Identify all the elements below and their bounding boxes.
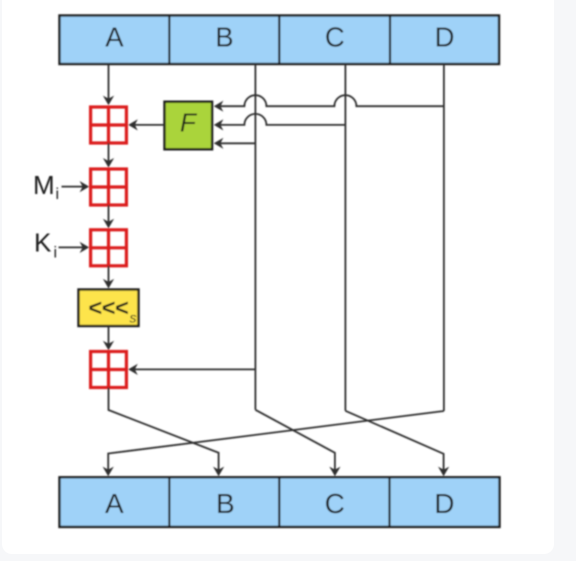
svg-text:B: B (215, 22, 233, 53)
wire rotate to add4 (108, 326, 110, 345)
top bar divider A|B (168, 16, 170, 65)
wire B into add4 (134, 368, 255, 370)
svg-text:A: A (105, 488, 124, 519)
adder add2 (+ Mi) (91, 169, 127, 205)
adder add3 (+ Ki) (91, 230, 127, 266)
bottom register bar (A B C D) (60, 477, 500, 527)
svg-text:s: s (130, 310, 137, 326)
svg-text:i: i (56, 186, 60, 203)
F function box (165, 102, 213, 150)
svg-text:K: K (34, 228, 52, 258)
bottom bar divider B|C (278, 477, 280, 527)
wire C to bottom D (345, 411, 443, 470)
top bar divider C|D (389, 16, 391, 65)
svg-text:<<<: <<< (88, 295, 129, 321)
wire B to F (bottom input) (220, 142, 256, 144)
wire D to F (top input, hops over C and B lines) (220, 95, 444, 106)
wire add3 to rotate box (108, 266, 110, 283)
svg-text:C: C (325, 22, 345, 53)
wire B vertical (254, 64, 256, 410)
svg-text:D: D (435, 22, 455, 53)
wire add1 to add2 (108, 143, 110, 162)
svg-text:A: A (105, 22, 124, 53)
wire F output to add1 (134, 124, 165, 126)
svg-text:F: F (180, 108, 198, 138)
svg-text:C: C (325, 488, 345, 519)
left-rotate box <<<s (79, 290, 139, 327)
adder add1 (A + F) (91, 107, 127, 143)
wire B to bottom C (255, 410, 335, 470)
bottom bar divider C|D (388, 477, 390, 527)
wire add4 output to bottom B (109, 388, 219, 471)
wire C to F (middle input, hops over B line) (220, 114, 346, 125)
wire Ki arrow into add3 (59, 246, 84, 248)
wire add2 to add3 (108, 205, 110, 223)
bottom bar divider A|B (168, 477, 170, 527)
svg-text:B: B (216, 488, 235, 519)
svg-text:i: i (54, 245, 58, 262)
wire D vertical (443, 64, 445, 411)
top bar divider B|C (278, 16, 280, 65)
wire C vertical (344, 64, 346, 411)
top register bar (A B C D) (60, 16, 500, 65)
adder add4 (+ B) (91, 352, 127, 388)
wire D to bottom A (108, 411, 444, 470)
svg-text:M: M (33, 170, 55, 200)
wire A output down to add1 (108, 64, 110, 100)
svg-text:D: D (434, 488, 454, 519)
wire Mi arrow into add2 (62, 186, 84, 188)
